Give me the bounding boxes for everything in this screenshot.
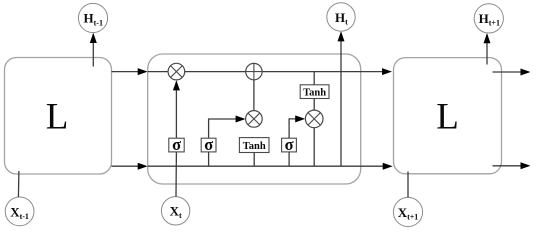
svg-text:Tanh: Tanh — [243, 141, 266, 152]
wire X_t input up to sigma1 — [175, 152, 177, 197]
label circle X_t+1 — [393, 197, 422, 226]
label circle X_t — [161, 197, 189, 225]
wire cell state top line — [148, 68, 392, 75]
multiply gate output (x) — [305, 110, 323, 128]
svg-text:Tanh: Tanh — [303, 87, 326, 98]
add gate (+) — [246, 63, 262, 79]
wire output multiply down to bottom line — [313, 128, 315, 167]
wire right box top output arrow — [493, 69, 531, 76]
wire X_t-1 input — [17, 171, 20, 197]
wire hidden state bottom line — [148, 163, 393, 170]
wire sigma1 to multiply gate arrow — [173, 80, 180, 138]
sigma box 3 — [282, 135, 297, 154]
sigma box 1 — [169, 135, 184, 154]
wire sigma3 elbow arrow to output multiply — [289, 115, 305, 138]
wire H_t+1 output arrow — [484, 33, 491, 64]
Tanh box 2 — [300, 85, 329, 99]
wire H_t-1 output arrow — [90, 33, 97, 67]
wire X_t+1 input — [407, 172, 409, 198]
wire bottom hidden line left box to cell — [112, 163, 148, 170]
wire Tanh1 to bottom line — [253, 153, 255, 167]
label circle H_t — [327, 3, 355, 31]
wire add gate down to input multiply — [253, 80, 255, 111]
wire H_t tap up from bottom line — [338, 31, 345, 166]
wire sigma2 to bottom line — [208, 152, 210, 166]
wire top line tap down to Tanh2 — [313, 72, 315, 85]
svg-text:L: L — [46, 97, 69, 138]
svg-text:σ: σ — [204, 135, 213, 154]
sigma box 2 — [201, 135, 216, 154]
block L (t+1) — [394, 58, 502, 174]
svg-text:L: L — [436, 97, 459, 138]
Tanh box 1 — [239, 138, 269, 153]
wire right box bottom output arrow — [493, 162, 531, 169]
wire sigma2 elbow arrow to input multiply — [209, 116, 246, 139]
LSTM cell body — [148, 54, 361, 184]
wire top state line left box to cell — [112, 68, 148, 75]
label circle H_t-1 — [78, 3, 107, 32]
multiply gate forget (x) — [168, 63, 185, 80]
label circle H_t+1 — [474, 4, 503, 33]
block L (t-1) — [5, 58, 112, 175]
multiply gate input (x) — [246, 111, 263, 128]
label circle X_t-1 — [5, 197, 34, 226]
wire Tanh2 to output multiply — [313, 99, 315, 111]
wire sigma3 to bottom line — [288, 152, 290, 166]
svg-text:σ: σ — [172, 135, 181, 154]
